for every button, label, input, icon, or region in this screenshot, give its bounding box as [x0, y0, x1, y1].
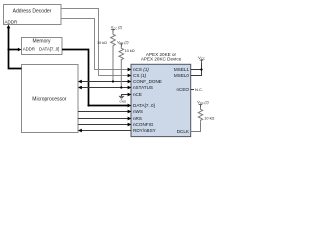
- svg-text:MSEL1: MSEL1: [174, 67, 190, 72]
- wire: nRS row: [78, 118, 128, 120]
- svg-text:nCE: nCE: [133, 92, 142, 97]
- wire: address decoder output 1 to CS: [61, 9, 128, 76]
- resistor R1 pull-up on CONF_DONE: [111, 33, 116, 82]
- wire: CONF_DONE row: [81, 81, 128, 83]
- svg-text:N.C.: N.C.: [195, 87, 203, 92]
- arrow into address decoder: [7, 25, 11, 29]
- arrow into FPGA DATA[7..0]: [128, 104, 132, 108]
- arrow into FPGA nCE: [128, 93, 132, 97]
- microprocessor box: [22, 65, 79, 133]
- svg-text:nCEO: nCEO: [176, 87, 189, 92]
- wire: thick address bus vertical: [9, 28, 22, 69]
- svg-text:10 kΩ: 10 kΩ: [125, 49, 135, 53]
- arrow into FPGA nCS: [128, 68, 132, 72]
- arrow into FPGA CS: [128, 74, 132, 78]
- svg-text:VCC: VCC: [198, 55, 205, 61]
- svg-text:VCC (2): VCC (2): [111, 26, 122, 31]
- VCC symbol for MSEL: [200, 60, 204, 63]
- wire: nCE row: [122, 94, 129, 96]
- junction R2 to nSTATUS: [120, 86, 122, 88]
- junction R1 to CONF_DONE: [112, 80, 114, 82]
- svg-text:CS (1): CS (1): [133, 73, 147, 78]
- VCC symbol for R2: [120, 44, 124, 47]
- wire: RDY/nBSY row: [81, 130, 132, 132]
- svg-text:nSTATUS: nSTATUS: [133, 85, 153, 90]
- svg-text:nCONFIG: nCONFIG: [133, 122, 154, 127]
- resistor R3 pull-up on DCLK: [191, 107, 203, 131]
- ground symbol on nCE: [119, 94, 127, 104]
- arrow into memory ADDR: [18, 48, 22, 52]
- wire: address bus branch to memory: [9, 49, 19, 51]
- svg-text:Memory: Memory: [32, 39, 51, 45]
- junction on address bus: [7, 48, 9, 50]
- arrow into FPGA nCONFIG: [128, 123, 132, 127]
- arrow into FPGA nSTATUS: [128, 86, 132, 90]
- svg-text:Address Decoder: Address Decoder: [13, 8, 52, 14]
- arrow into microprocessor (nSTATUS): [78, 86, 82, 90]
- VCC symbol for R1: [111, 30, 115, 33]
- wire: MSEL1 to VCC: [191, 69, 202, 71]
- svg-text:APEX 20KC Device: APEX 20KC Device: [141, 57, 182, 62]
- svg-text:DCLK: DCLK: [177, 129, 190, 134]
- wire: nCEO stub: [191, 89, 195, 91]
- VCC symbol for R3: [199, 105, 203, 108]
- junction MSEL1/VCC: [200, 68, 202, 70]
- wire: nWS row: [78, 111, 128, 113]
- wire: nSTATUS row: [81, 87, 128, 89]
- svg-text:10 kΩ: 10 kΩ: [97, 41, 107, 45]
- svg-text:GND: GND: [119, 100, 127, 104]
- arrow into FPGA nRS: [128, 117, 132, 121]
- svg-text:MSEL0: MSEL0: [174, 73, 190, 78]
- wire: address decoder output 2 to nCS: [61, 19, 128, 70]
- arrow into FPGA CONF_DONE: [128, 80, 132, 84]
- svg-text:nWS: nWS: [133, 109, 143, 114]
- FPGA device title: [141, 52, 182, 62]
- svg-text:VCC (2): VCC (2): [117, 40, 128, 45]
- resistor R2 pull-up on nSTATUS: [119, 47, 124, 88]
- svg-text:RDY/nBSY: RDY/nBSY: [133, 128, 156, 133]
- svg-text:VCC (2): VCC (2): [197, 101, 208, 106]
- arrow into microprocessor (RDY/nBSY): [78, 129, 82, 133]
- arrow into FPGA nWS: [128, 110, 132, 114]
- svg-text:ADDR: ADDR: [23, 47, 35, 52]
- svg-text:10 kΩ: 10 kΩ: [204, 116, 214, 120]
- svg-text:ADDR: ADDR: [5, 20, 19, 25]
- svg-text:DATA[7..0]: DATA[7..0]: [133, 103, 155, 108]
- wire: MSEL0 to VCC: [191, 63, 202, 76]
- FPGA device U1 (APEX) box: [131, 64, 191, 136]
- wire: nCONFIG row: [78, 124, 128, 126]
- address decoder box: [4, 5, 62, 25]
- svg-text:nCS (1): nCS (1): [133, 67, 149, 72]
- junction on data bus: [87, 104, 89, 106]
- wire: thick data bus from microprocessor to FPGA DATA: [89, 105, 129, 107]
- svg-text:nRS: nRS: [133, 116, 142, 121]
- wire: thick data bus from memory: [62, 50, 89, 106]
- svg-text:CONF_DONE: CONF_DONE: [133, 79, 162, 84]
- svg-text:Microprocessor: Microprocessor: [32, 96, 67, 102]
- memory box: [22, 38, 63, 55]
- arrow into microprocessor (CONF_DONE): [78, 80, 82, 84]
- svg-text:DATA[7..0]: DATA[7..0]: [39, 47, 59, 52]
